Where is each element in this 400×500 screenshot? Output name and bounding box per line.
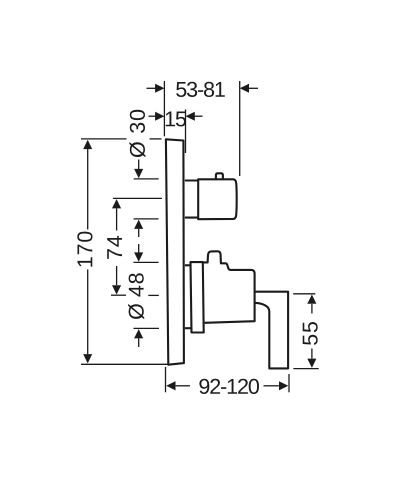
dim diam30 bottom extension line [134, 218, 159, 220]
valve escutcheon ring [191, 262, 204, 332]
dim text 15 [166, 112, 186, 127]
handle safety-stop tab [216, 173, 223, 179]
dim text diam 30 [129, 110, 145, 158]
dim 53-81 left extension line [163, 81, 165, 136]
dim 55 bottom arrow [307, 359, 316, 368]
valve body with diverter knob [203, 251, 255, 322]
dim diam30 top arrow [138, 160, 140, 170]
dim 15 left arrow [149, 115, 156, 117]
dim text 53-81 [176, 82, 225, 97]
dim 170 top arrow [83, 140, 92, 149]
dim 92-120 left arrow [166, 381, 175, 390]
dim 74 bottom arrow [112, 285, 121, 294]
dim text 92-120 [199, 379, 259, 394]
dim 170 bottom extension line [81, 363, 168, 365]
thermostat handle [198, 179, 236, 219]
connector tube bottom edge [185, 327, 191, 329]
dim text 55 [303, 322, 318, 345]
dim 53-81 right arrow [249, 87, 258, 89]
dim diam30 top extension line [134, 178, 159, 180]
dim text 74 [107, 236, 122, 259]
dim 74 bottom extension line [111, 294, 126, 296]
dim 15 right extension line [185, 110, 187, 154]
dim 92-120 right arrow [279, 381, 288, 390]
dim 55 bottom extension line [293, 368, 318, 370]
dim diam48 top arrow [138, 244, 140, 253]
dim 170 bottom arrow [83, 354, 92, 363]
dim 53-81 left arrow [147, 87, 156, 89]
dim 55 top arrow [307, 295, 316, 304]
dim diam48 bottom arrow [138, 339, 140, 348]
dim diam30 bottom arrow [138, 229, 140, 237]
dim 15 right arrow [195, 115, 203, 117]
dim 74 top arrow [112, 199, 121, 208]
dim diam48 bottom extension line [134, 327, 160, 329]
dim diam48 top extension line [134, 261, 159, 263]
dim text diam 48 [128, 273, 144, 319]
thermostat sleeve [185, 181, 198, 218]
lever handle [255, 292, 288, 369]
dim 170 top extension line [81, 138, 127, 140]
wall plate (escutcheon side view) [166, 139, 184, 364]
dim 74 top extension line [113, 197, 162, 199]
connector tube top edge [185, 264, 191, 266]
dim text 170 [77, 232, 92, 267]
dim 92-120 left extension line [165, 367, 167, 392]
dim 92-120 right extension line [288, 374, 290, 392]
dim 55 top extension line [293, 293, 315, 295]
dim 53-81 right extension line [239, 81, 241, 176]
